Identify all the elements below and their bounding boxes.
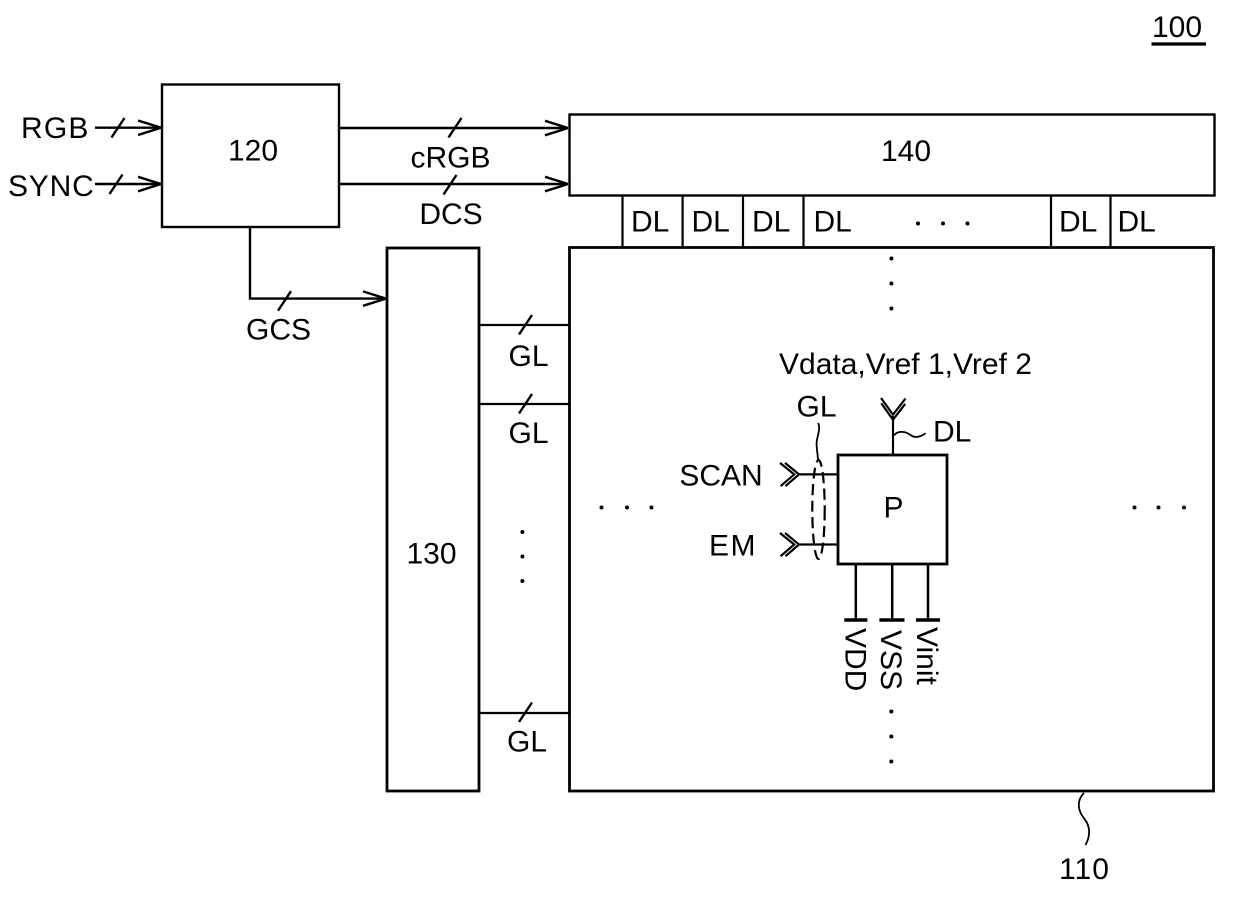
svg-text:GL: GL [507,726,547,759]
svg-text:P: P [883,492,903,525]
svg-text:DCS: DCS [419,198,482,231]
svg-text:GL: GL [796,391,836,424]
svg-text:SCAN: SCAN [679,460,762,493]
svg-text:GL: GL [508,417,548,450]
svg-text:Vdata,Vref 1,Vref 2: Vdata,Vref 1,Vref 2 [779,348,1032,381]
svg-text:120: 120 [228,135,278,168]
svg-text:DL: DL [933,416,971,449]
svg-text:GCS: GCS [246,314,311,347]
svg-text:130: 130 [406,538,456,571]
svg-text:cRGB: cRGB [410,142,490,175]
svg-text:DL: DL [814,206,852,239]
svg-text:140: 140 [881,135,931,168]
svg-text:DL: DL [1118,206,1156,239]
svg-text:VDD: VDD [839,628,872,691]
svg-text:EM: EM [709,530,757,563]
svg-text:VSS: VSS [874,630,907,690]
svg-text:SYNC: SYNC [8,170,95,203]
svg-text:DL: DL [631,206,669,239]
svg-text:Vinit: Vinit [910,627,943,685]
svg-text:DL: DL [692,206,730,239]
svg-text:DL: DL [752,206,790,239]
svg-text:100: 100 [1152,11,1202,44]
svg-text:110: 110 [1059,853,1110,886]
svg-text:GL: GL [508,340,548,373]
svg-text:DL: DL [1059,206,1097,239]
svg-text:RGB: RGB [21,112,90,145]
